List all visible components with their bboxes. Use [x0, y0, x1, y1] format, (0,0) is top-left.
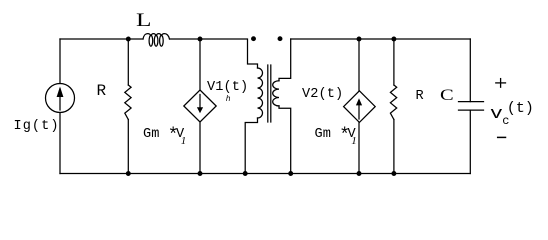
transformer T1 secondary winding lead top [279, 39, 291, 81]
junction dot bottom R1 [126, 171, 131, 176]
polarity dot secondary [278, 36, 283, 41]
current source Ig circle [46, 84, 75, 113]
label sub1 left [181, 135, 187, 147]
dependent source V2 diamond [344, 91, 376, 123]
label sub1 right [351, 135, 357, 147]
label L [136, 10, 152, 32]
junction dot top V1 [198, 37, 203, 42]
label V1(t) [207, 80, 248, 95]
label Gm*V1 right [315, 127, 356, 142]
label R right [416, 89, 424, 104]
current source arrow [57, 87, 64, 111]
capacitor C plate bottom [459, 109, 484, 111]
junction dot top R1 [126, 37, 131, 42]
wire right edge lower [469, 110, 471, 173]
label mu mark [226, 95, 231, 104]
label Gm*V1 left [143, 127, 184, 142]
wire left edge lower [59, 113, 61, 174]
wire secondary bottom lead [279, 106, 291, 174]
junction dot bottom V1 [198, 171, 203, 176]
wire R2 bottom lead [393, 120, 395, 174]
junction dot bottom primary [243, 171, 248, 176]
label Ig(t) [14, 119, 60, 134]
plus sign [496, 79, 506, 88]
transformer core line 2 [270, 65, 272, 122]
wire R2 top lead [393, 39, 395, 85]
polarity dot primary [251, 36, 256, 41]
junction dot bottom V2 [357, 171, 362, 176]
wire primary bottom lead [245, 118, 257, 174]
wire R1 top lead [127, 39, 129, 85]
wire V1 top lead [199, 39, 201, 90]
minus sign [498, 136, 506, 138]
resistor R1 [125, 85, 131, 120]
label R left [97, 82, 107, 100]
wire top-right segment [291, 38, 471, 40]
wire left edge upper [59, 39, 61, 84]
resistor R2 [390, 85, 396, 120]
V2 arrow (up) [356, 98, 362, 119]
label C [440, 87, 454, 105]
label vc(t) [490, 105, 503, 124]
junction dot bottom secondary [288, 171, 293, 176]
junction dot bottom R2 [391, 171, 396, 176]
wire top-left segment [60, 38, 143, 40]
V1 arrow (down) [197, 95, 203, 114]
wire R1 bottom lead [127, 120, 129, 174]
transformer T1 primary winding [258, 68, 263, 118]
wire V2 bottom lead [358, 122, 360, 173]
label V2(t) [302, 87, 343, 102]
wire right edge upper [469, 39, 471, 102]
junction dot top R2 [391, 37, 396, 42]
capacitor C plate top [459, 101, 484, 103]
wire top-mid segment into transformer primary [170, 39, 258, 68]
transformer T1 secondary winding [273, 81, 279, 106]
wire V1 bottom lead [199, 122, 201, 174]
wire V2 top lead [358, 39, 360, 91]
transformer core line 1 [267, 65, 269, 122]
junction dot top V2 [357, 37, 362, 42]
wire bottom [60, 173, 470, 175]
inductor L1 coil [143, 34, 170, 39]
dependent source V1 diamond [184, 90, 216, 122]
